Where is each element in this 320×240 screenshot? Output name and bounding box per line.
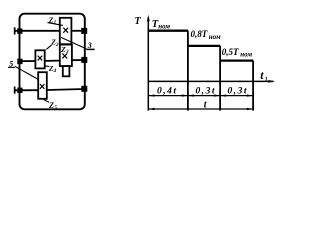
svg-text:ном: ном	[158, 23, 170, 31]
gear Z4 box on shaft3	[38, 72, 47, 99]
t axis label t1	[260, 68, 268, 83]
svg-text:1: 1	[265, 77, 268, 83]
label Z3	[60, 45, 69, 55]
step 1 Tnom	[148, 30, 188, 32]
drop line 1 / extension	[187, 31, 189, 111]
label Z4 mid left	[48, 64, 57, 74]
gear Z2 box on shaft2 center	[60, 45, 72, 67]
bearing junction shaft2 right wall	[81, 57, 87, 63]
label Z2	[50, 37, 59, 48]
svg-text:0,3t: 0,3t	[196, 87, 217, 97]
shaft 3 terminal tick	[14, 87, 16, 94]
node label 3 underlined	[86, 41, 94, 50]
svg-text:0,3t: 0,3t	[228, 87, 249, 97]
small hub box under gear Z2	[63, 66, 70, 76]
svg-text:2: 2	[55, 42, 59, 48]
leader Z5 to gear Z4 box	[44, 100, 49, 103]
label Z1	[48, 15, 57, 25]
bearing junction shaft2 left wall	[17, 59, 22, 64]
shaft 1	[15, 30, 85, 32]
bearing junction shaft3 right wall	[81, 86, 87, 92]
gearbox housing	[20, 14, 85, 110]
svg-text:5: 5	[54, 105, 57, 111]
shaft 1 terminal tick	[14, 27, 16, 34]
svg-text:0,5T: 0,5T	[222, 47, 239, 57]
label 0.8T nom	[191, 29, 221, 41]
T axis	[147, 15, 150, 111]
node label 5 underlined	[8, 59, 15, 68]
shaft 2	[20, 60, 85, 61]
svg-text:T: T	[135, 16, 142, 27]
drop line 3 / extension	[252, 61, 254, 111]
step 2	[188, 45, 220, 47]
leader Z4 tick	[45, 65, 49, 68]
dimension row 2 line	[148, 108, 253, 110]
label T nom	[152, 19, 171, 31]
label Z5 bottom	[48, 101, 57, 111]
bearing junction shaft1 right wall	[81, 28, 87, 34]
svg-text:4: 4	[53, 68, 57, 74]
dimension row 1 line	[148, 94, 253, 96]
leader from gear Z1 interior to label 3	[61, 37, 86, 49]
svg-text:0,8T: 0,8T	[191, 29, 208, 39]
leader from label 5 to gear Z4	[15, 66, 38, 79]
svg-text:ном: ном	[209, 33, 221, 41]
drop line 2 / extension	[219, 46, 221, 111]
leader Z1 to gear	[48, 23, 64, 26]
label 0.5T nom	[222, 47, 253, 59]
svg-text:0,4t: 0,4t	[157, 87, 178, 97]
step 3	[220, 59, 253, 61]
gear Z1 box	[60, 18, 72, 44]
svg-text:ном: ном	[240, 51, 252, 59]
leader Z2	[46, 45, 51, 50]
shaft 3	[15, 89, 85, 90]
bearing junction shaft3 left wall	[17, 88, 22, 93]
bearing junction shaft1 left wall	[17, 28, 22, 33]
svg-text:3: 3	[65, 49, 69, 55]
t axis	[148, 80, 274, 83]
gear Z3 box on shaft2 left	[35, 50, 44, 68]
